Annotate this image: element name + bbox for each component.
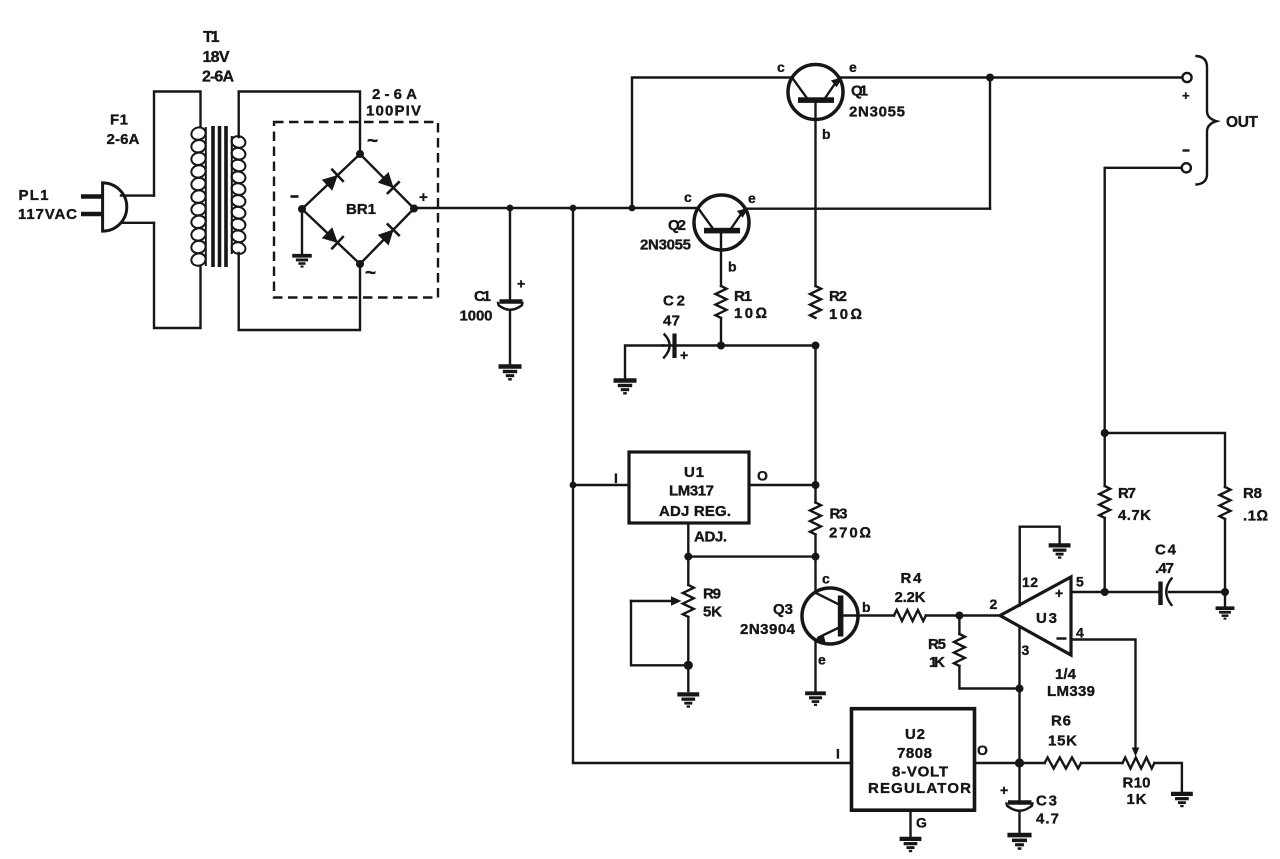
svg-text:2N3055: 2N3055 [849,104,905,121]
svg-text:2-6A: 2-6A [202,69,234,86]
wire secondary bottom to bridge [239,253,360,330]
capacitor C2 [664,335,670,358]
wire C2 to ground riser [625,346,663,379]
svg-text:REGULATOR: REGULATOR [868,780,971,797]
node Q1 emitter junction [986,74,994,82]
svg-text:R9: R9 [703,586,721,603]
brace OUT [1197,56,1217,185]
transistor Q3 [802,588,858,644]
node bridge bottom [356,260,364,268]
wire C3 top lead [1018,763,1020,801]
svg-text:1K: 1K [1127,791,1147,808]
svg-text:LM339: LM339 [1047,683,1095,700]
wire U2 ground pin [909,810,911,836]
svg-text:C1: C1 [474,288,491,305]
svg-text:c: c [822,571,830,587]
wire R3 bottom lead [814,535,816,557]
wire R10 to ground [1154,763,1182,792]
ground at Q3 [805,693,826,705]
transistor Q2 [694,195,749,250]
svg-text:+: + [1055,585,1063,601]
bridge BR1 dashed box [274,122,438,298]
wire Q2 emitter to tie [745,207,990,209]
wire R9 top lead [687,557,689,585]
svg-text:5K: 5K [703,604,722,621]
diode BR1 top-right [377,171,400,194]
svg-text:4.7K: 4.7K [1118,507,1151,524]
node bus C1 tap [507,205,514,212]
svg-text:O: O [977,742,988,758]
regulator U2 box [852,709,975,811]
wire Q1 emitter to OUT+ [839,76,1183,78]
svg-text:1000: 1000 [460,308,493,325]
node U1 output R3 top [812,481,820,489]
wire Q3 base to R4 [843,614,894,616]
diode BR1 bottom-right [377,223,400,246]
svg-text:R2: R2 [829,288,847,305]
wire pin4 to R10 wiper [1071,640,1136,750]
svg-text:+: + [680,347,688,363]
svg-text:I: I [836,746,840,762]
terminal OUT plus [1182,73,1191,82]
resistor R2 [810,286,821,318]
svg-text:2N3055: 2N3055 [640,237,691,254]
svg-text:e: e [849,59,857,75]
node C4 R8 junction [1221,588,1229,596]
wire R5 top lead [958,616,960,635]
wire pin5 to C4 [1071,591,1158,593]
svg-text:b: b [822,126,831,142]
capacitor C3 [1008,800,1032,804]
wire U2 output [975,762,1020,764]
ground at C3 [1007,835,1031,848]
ground at C1 [499,367,522,380]
wire C1 top lead [509,208,511,301]
wire C4 to R8 node [1169,591,1225,593]
svg-text:C3: C3 [1036,793,1057,810]
svg-text:12: 12 [1022,574,1038,590]
svg-text:4.7: 4.7 [1036,811,1059,828]
svg-text:+: + [419,189,428,206]
wire pin3 down [1018,627,1020,763]
regulator U1 box [629,452,749,523]
wire R7 bottom lead [1103,518,1105,592]
wire C1 bottom lead [509,310,511,364]
wire minus rail to R8 [1105,433,1225,487]
svg-text:.1Ω: .1Ω [1243,508,1268,525]
wire R6 left lead [1020,762,1045,764]
wire U1 ADJ pin [687,523,689,557]
ground at C4 [1216,608,1235,618]
node U2 output junction [1015,758,1024,767]
wire R5 bottom lead [959,666,1019,689]
wire U1 output [749,484,816,486]
wire R4 to node 2 [926,614,959,616]
svg-text:1/4: 1/4 [1055,666,1077,683]
svg-text:+: + [1000,782,1008,798]
comparator U3 [1000,577,1071,655]
svg-text:2-6A: 2-6A [107,131,140,148]
wire Q2 base to R1 [720,234,722,287]
svg-text:R10: R10 [1123,775,1151,792]
svg-text:1K: 1K [929,654,945,671]
wire Q3 emitter lead [814,640,816,691]
wire secondary top to bridge [239,92,360,155]
wire left rail down [573,208,852,763]
svg-text:2N3904: 2N3904 [740,621,796,638]
svg-text:e: e [818,652,826,668]
svg-text:~: ~ [367,131,378,152]
resistor R4 [894,610,926,621]
node pin3 R5 junction [1016,685,1024,693]
wire Q1 collector feed [632,78,793,209]
wire R8 node to ground [1224,592,1226,606]
svg-text:b: b [728,259,737,275]
potentiometer R10 [1123,758,1155,769]
svg-text:PL1: PL1 [19,187,49,204]
plug PL1 prong 2 [81,212,102,217]
svg-text:47: 47 [663,313,680,330]
wire pin2 to node [959,614,1000,616]
svg-text:I: I [614,470,618,486]
wire U1 input [573,484,629,486]
capacitor C1 [500,299,523,304]
svg-text:~: ~ [365,263,376,284]
ground at R9 [677,694,699,706]
node pin5 R7 junction [1101,588,1109,596]
svg-text:10Ω: 10Ω [734,305,767,322]
svg-text:c: c [777,59,785,75]
svg-text:U3: U3 [1036,610,1057,627]
ground at bridge minus [301,209,303,254]
svg-text:2: 2 [990,596,998,612]
node bus left-rail tap [570,205,577,212]
wire R2 to U1 output rail [814,346,816,486]
wire R9 wiper loop [631,601,688,665]
terminal OUT minus [1182,163,1191,172]
R10 wiper arrow [1132,748,1140,757]
wire main DC bus [414,207,698,209]
transformer T1 secondary winding [230,135,246,256]
node R2 bottom [812,342,820,350]
wire Q3 collector lead [814,557,816,593]
node bus Q1 tap [629,205,636,212]
wire pin12 to ground [1020,527,1060,606]
svg-text:T1: T1 [203,29,220,46]
svg-text:Q3: Q3 [773,601,793,618]
wire C3 bottom lead [1018,813,1020,833]
svg-text:R5: R5 [928,636,946,653]
wire primary left loop [154,92,201,329]
svg-text:+: + [517,276,525,292]
svg-text:3: 3 [1022,642,1030,658]
wire ADJ to R3 node [688,555,815,557]
resistor R1 [716,286,727,318]
wire plug top cord [121,194,154,196]
svg-text:O: O [757,468,768,484]
bridge minus label [291,195,299,198]
node R1 bottom [717,342,725,350]
svg-text:Q1: Q1 [851,83,868,100]
resistor R8 [1220,487,1231,519]
svg-text:270Ω: 270Ω [829,525,871,542]
diode BR1 bottom-left [321,226,344,249]
resistor R5 [954,634,965,666]
resistor R6 [1045,758,1081,769]
transformer T1 primary winding [190,126,207,267]
node R9 bottom junction [684,661,693,670]
svg-text:+: + [1182,88,1190,103]
svg-text:R7: R7 [1118,485,1136,502]
ground at pin12 [1049,545,1071,557]
svg-text:117VAC: 117VAC [18,206,77,223]
svg-text:4: 4 [1076,625,1084,641]
ground at C2 [614,381,637,394]
svg-text:U2: U2 [905,726,925,743]
wire R3 top lead [814,485,816,503]
capacitor C4 [1158,582,1162,606]
ground at U2 [900,839,922,851]
svg-text:R4: R4 [901,570,923,587]
svg-text:5: 5 [1076,574,1084,590]
wire R7 top lead [1103,433,1105,486]
node bridge right [410,205,418,213]
svg-text:C4: C4 [1155,542,1177,559]
svg-text:.47: .47 [1155,560,1174,577]
wire R6 to R10 [1081,762,1122,764]
svg-text:10Ω: 10Ω [829,306,862,323]
svg-text:7808: 7808 [897,745,932,762]
R9 wiper arrow [631,600,673,602]
wire base resistor bottom bus [662,344,816,346]
svg-text:e: e [748,190,756,206]
wire emitter tie vertical [989,78,991,209]
transistor Q1 [788,65,843,120]
svg-text:b: b [862,599,871,615]
svg-text:R6: R6 [1051,713,1071,730]
svg-text:R3: R3 [830,506,848,523]
svg-text:18V: 18V [203,49,230,66]
ground at R10 [1171,794,1193,806]
svg-text:c: c [684,189,692,205]
node ADJ junction [684,553,692,561]
wire Q1 base to R2 [814,103,816,286]
node bridge top [356,150,364,158]
diode BR1 top-left [321,168,344,191]
node bridge left [298,205,306,213]
node R3 bottom junction [812,553,820,561]
node minus rail split [1101,429,1109,437]
node left rail U1 input tap [570,482,577,489]
wire R1 bottom lead [720,318,722,346]
svg-text:ADJ.: ADJ. [694,529,727,546]
resistor R7 [1099,486,1110,518]
svg-text:BR1: BR1 [346,201,376,218]
svg-text:Q2: Q2 [668,217,686,234]
svg-text:LM317: LM317 [669,483,714,500]
svg-text:F1: F1 [110,112,128,129]
svg-text:ADJ REG.: ADJ REG. [659,503,731,520]
svg-text:R1: R1 [734,288,752,305]
svg-text:2.2K: 2.2K [895,589,926,606]
svg-text:15K: 15K [1048,733,1077,750]
wire R8 bottom lead [1224,519,1226,592]
wire plug bottom cord [121,222,154,224]
plug PL1 body [103,183,127,231]
svg-text:R8: R8 [1243,485,1262,502]
svg-text:G: G [916,815,927,831]
transformer T1 core [213,126,226,267]
wire R9 bottom lead [687,617,689,691]
svg-text:2-6A: 2-6A [372,86,417,103]
potentiometer R9 [683,585,694,617]
bridge BR1 diamond [302,154,414,264]
resistor R3 [810,503,821,535]
node R4 R5 pin2 junction [955,612,963,620]
svg-text:U1: U1 [684,464,704,481]
svg-text:100PIV: 100PIV [366,103,421,120]
wire OUT minus lead [1105,168,1182,433]
plug PL1 prong 1 [81,194,102,199]
svg-text:OUT: OUT [1226,114,1259,131]
U3 minus input mark [1057,637,1067,640]
svg-text:8-VOLT: 8-VOLT [892,764,948,781]
